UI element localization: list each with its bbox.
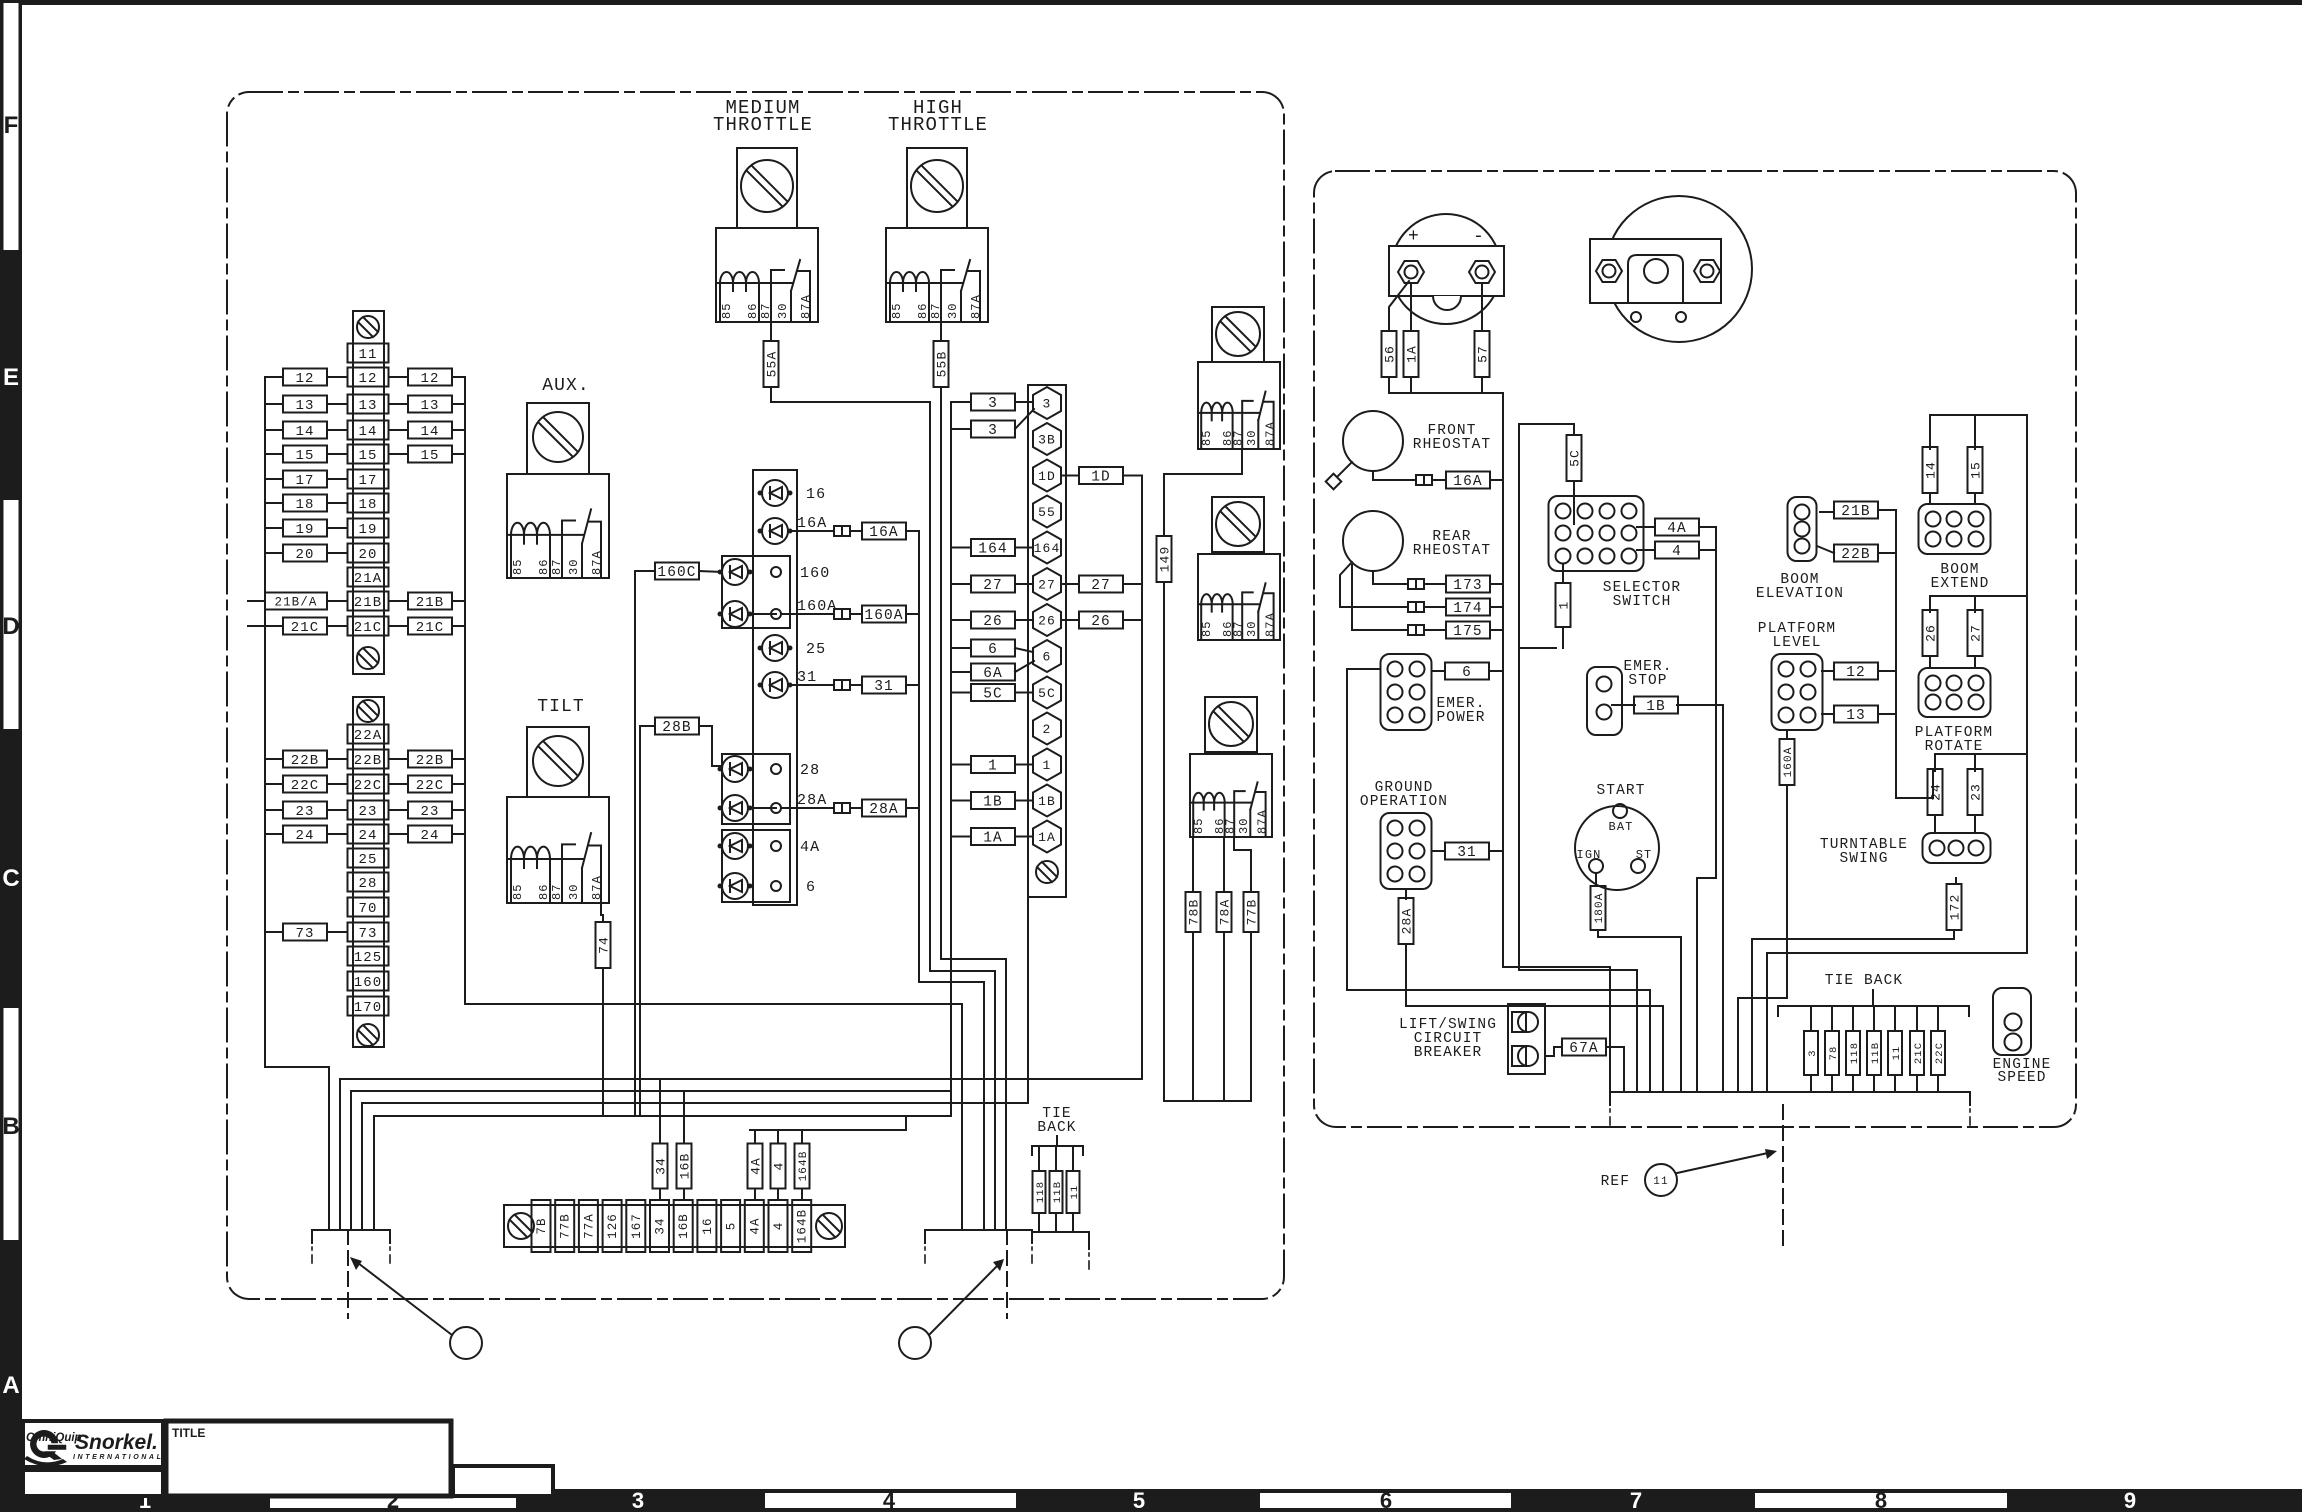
wire label 21B/A [265,593,327,610]
svg-text:87A: 87A [590,550,604,575]
wire label 23 left [283,802,327,821]
svg-text:78: 78 [1828,1046,1840,1061]
wire 1B feed [1612,705,1723,1092]
relay K7 body [1190,754,1272,837]
wire [265,809,283,811]
relay K4 screw [533,736,583,786]
wire [265,502,283,504]
TB1 terminal 21A [348,568,389,588]
svg-text:TITLE: TITLE [172,1426,205,1440]
relay K5 tab [1212,307,1264,362]
svg-text:15: 15 [1969,461,1984,479]
svg-text:SPEED: SPEED [1997,1070,2046,1086]
wire 175 [1352,565,1503,630]
svg-text:15: 15 [295,448,314,464]
wire 27 stub [1015,583,1033,585]
cable entry 1 comb [312,1230,390,1263]
relay K3 AUX body [507,474,609,578]
inline fuse 173 [1408,579,1424,589]
svg-text:26: 26 [1091,614,1111,630]
wire [327,403,347,405]
relay K7 tab [1205,697,1257,752]
wire tieback 22C bottom [1937,1075,1939,1092]
svg-text:21C: 21C [291,620,320,636]
svg-text:85: 85 [890,302,904,319]
wire 173 [1373,571,1503,584]
wire [389,453,408,455]
svg-text:+: + [1408,227,1420,247]
wire label 4 selector [1655,542,1699,561]
svg-text:160: 160 [354,975,383,991]
wire ground 28A top [1405,889,1407,899]
svg-text:14: 14 [295,424,314,440]
wire 5C to bus B [951,692,971,694]
fuse 28A [1399,898,1415,944]
svg-text:21A: 21A [354,571,383,587]
wire [327,783,347,785]
svg-text:14: 14 [420,424,439,440]
wire tieback 3 top [1810,1006,1812,1031]
svg-text:28A: 28A [869,802,898,818]
wire 164 to bus B [951,547,971,549]
TB3 terminal 77A [579,1200,598,1252]
ref leader [1677,1153,1768,1173]
wire tieback 118 bottom [1038,1213,1040,1232]
TB3 terminal 16B [674,1200,693,1252]
fuse 15 [1968,447,1984,493]
TB3 terminal 34 [650,1200,669,1252]
TB1 terminal 20 [348,544,389,564]
svg-text:20: 20 [358,547,377,563]
TB1 terminal 15 [348,445,389,465]
wire 67A feed [1545,1047,1624,1092]
fuse 77B [1244,892,1260,932]
svg-text:24: 24 [420,828,439,844]
TB1 terminal 14 [348,421,389,441]
relay K6 screw [1216,502,1260,546]
svg-text:16: 16 [701,1217,715,1234]
connector pin 2 [1033,713,1061,745]
svg-text:31: 31 [1457,845,1477,861]
TB2 terminal 28 [348,873,389,893]
fuse tieback right 21C [1910,1031,1925,1075]
wire label 1B conn [971,792,1015,811]
wire [265,527,283,529]
wire [389,809,408,811]
fuse 55B [934,341,950,387]
TB2 screw top [357,700,379,722]
svg-text:21C: 21C [1913,1042,1925,1064]
battery bus [1389,377,1503,393]
svg-text:-: - [1473,227,1485,247]
wire label 22B left [283,751,327,770]
svg-text:77B: 77B [1245,899,1260,926]
selector loop feed to harness [1519,648,1637,1092]
wire tieback 11 top [1072,1146,1074,1171]
relay K3 AUX tab [527,403,589,474]
svg-text:77A: 77A [582,1213,596,1239]
wire [327,600,347,602]
svg-text:13: 13 [358,398,377,414]
relay K6 tab [1212,497,1264,552]
fuse tieback 118 [1033,1171,1047,1213]
svg-text:E: E [3,364,19,391]
svg-text:85: 85 [511,883,525,900]
svg-text:3: 3 [988,423,998,439]
wire [1061,619,1079,621]
svg-text:70: 70 [358,901,377,917]
relay K5 screw [1216,312,1260,356]
svg-text:24: 24 [295,828,314,844]
svg-text:RHEOSTAT: RHEOSTAT [1413,543,1491,559]
wire 160A top [1786,730,1788,739]
svg-text:5C: 5C [1568,449,1583,467]
wire [452,783,465,785]
relay K1 MEDIUM THROTTLE body [716,228,818,322]
svg-text:23: 23 [358,804,377,820]
starter solenoid [1606,196,1752,342]
wire 27 to bus B [951,583,971,585]
TB3 terminal 4A [745,1200,764,1252]
wire [327,453,347,455]
wire tieback 11B bottom [1055,1213,1057,1232]
wire [327,833,347,835]
front rheostat [1343,411,1403,471]
svg-text:86: 86 [746,302,760,319]
svg-text:11: 11 [358,347,377,363]
battery feed to harness [1503,393,1610,1092]
wire label 23 right [408,802,452,821]
wire boom elev bus [1896,510,1933,798]
svg-text:6: 6 [1043,650,1052,665]
relay K4 TILT tab [527,727,589,797]
wire [327,758,347,760]
svg-text:22B: 22B [354,753,383,769]
wire label 16A [862,523,906,542]
wire tieback 11 top [1894,1006,1896,1031]
wire label 6 conn [971,640,1015,659]
stubs 14/15 [1930,493,1975,504]
svg-text:30: 30 [1245,620,1259,637]
svg-text:31: 31 [797,669,817,686]
wire label 21B right [408,593,452,612]
svg-text:1A: 1A [983,831,1003,847]
battery notch [1433,296,1461,310]
wire label 160C [655,563,699,582]
connector pin 1D [1033,460,1061,492]
wire 6A to bus B [951,671,971,673]
svg-text:17: 17 [295,473,314,489]
control box enclosure dashed [227,92,1284,1299]
svg-text:22C: 22C [291,778,320,794]
relay K2 HIGH THROTTLE body [886,228,988,322]
fuse tieback right 118 [1846,1031,1861,1075]
wire [327,625,347,627]
connector TURNTABLE SWING [1923,833,1991,863]
svg-text:57: 57 [1476,345,1491,363]
stub 13 [1822,713,1896,715]
wire label 13 left [283,396,327,415]
svg-text:8: 8 [1875,1488,1887,1512]
wire 31 ground [1432,850,1503,852]
wire label 31 [862,677,906,696]
svg-text:21B/A: 21B/A [274,596,317,610]
svg-text:2: 2 [1043,722,1052,737]
wire tieback 11 bottom [1072,1213,1074,1232]
fuse 5C [1567,435,1583,481]
svg-text:22A: 22A [354,728,383,744]
svg-text:LEVEL: LEVEL [1772,635,1821,651]
wire [265,376,283,378]
svg-text:6: 6 [1462,665,1472,681]
TB2 screw bottom [357,1024,379,1046]
wire 1B to bus B [951,800,971,802]
fuse riser 34 [653,1144,669,1189]
wire [389,783,408,785]
wire [389,429,408,431]
wire 28B to diode [699,726,722,766]
fuse riser 4 [771,1144,787,1189]
boom elev stubs [1817,510,1896,553]
svg-text:19: 19 [295,522,314,538]
relay K3 screw [533,412,583,462]
wire label 15 right [408,446,452,465]
wire 1 to bus B [951,764,971,766]
wire label 22B right [408,751,452,770]
wire label 21B boom [1834,502,1878,521]
svg-text:F: F [4,112,19,139]
svg-text:1: 1 [1557,601,1572,610]
tie back dash marks [1088,1253,1090,1269]
wire label 1A conn [971,828,1015,847]
TB3 terminal 167 [626,1200,645,1252]
inline fuse 175 [1408,625,1424,635]
TB3 terminal 5 [721,1200,740,1252]
svg-text:24: 24 [1929,783,1944,801]
svg-text:28A: 28A [1400,908,1415,935]
svg-text:3B: 3B [1038,433,1056,448]
wire 180A feed [1598,930,1681,1092]
svg-text:3: 3 [1043,397,1052,412]
wire 160C down [635,571,655,1116]
svg-text:30: 30 [1237,817,1251,834]
inline fuse 28A [834,803,850,813]
svg-text:16: 16 [806,486,826,503]
svg-text:21C: 21C [354,620,383,636]
svg-text:SWITCH: SWITCH [1613,594,1672,610]
wire 34 low [659,1189,661,1200]
svg-text:23: 23 [295,804,314,820]
svg-text:22C: 22C [354,778,383,794]
svg-text:12: 12 [295,371,314,387]
wire 26 stub [1015,619,1033,621]
wire label 6 emer [1445,663,1489,682]
svg-text:13: 13 [420,398,439,414]
svg-text:30: 30 [946,302,960,319]
terminal strip TB2 outline [353,697,384,1047]
balloon 1 [450,1327,482,1359]
wire label 27 right [1079,576,1123,595]
svg-text:118: 118 [1849,1042,1861,1064]
TB2 terminal 25 [348,849,389,869]
svg-text:87: 87 [929,302,943,319]
svg-text:74: 74 [597,936,612,954]
connector EMER POWER [1381,654,1432,730]
svg-text:11B: 11B [1870,1042,1882,1064]
svg-text:34: 34 [654,1217,668,1234]
wire tieback 22C top [1937,1006,1939,1031]
wire label 21C left [283,618,327,637]
svg-text:27: 27 [1091,578,1111,594]
svg-text:STOP: STOP [1628,673,1667,689]
TB3 terminal 164B [792,1200,811,1252]
connector SELECTOR SWITCH [1549,496,1644,571]
connector pin 55 [1033,496,1061,528]
connector pin 3B [1033,423,1061,455]
wire [389,833,408,835]
wire 160A to bus A [906,613,919,615]
page border top line [0,0,2302,5]
wire [452,758,465,760]
wire [265,758,283,760]
fuse 1A [1404,331,1420,377]
TB1 terminal 11 [348,344,389,364]
right bus feed [1767,415,2027,1092]
fuse 149 [1157,536,1173,582]
svg-text:164B: 164B [796,1209,810,1243]
svg-text:3: 3 [632,1488,644,1512]
TB1 terminal 21B [348,592,389,612]
wire 3b to bus B [951,428,971,430]
svg-text:1D: 1D [1091,470,1111,486]
wire rheostat 16A [1373,471,1503,480]
engine speed connector [1993,988,2031,1055]
svg-text:85: 85 [720,302,734,319]
svg-text:18: 18 [358,497,377,513]
svg-text:THROTTLE: THROTTLE [713,114,813,136]
svg-text:ROTATE: ROTATE [1925,739,1984,755]
diode D25 [759,635,792,661]
fuse tieback right 11B [1867,1031,1882,1075]
wire d160a [748,613,862,615]
wire label 13 right [408,396,452,415]
wire tieback 21C top [1916,1006,1918,1031]
wire label 164 [971,539,1015,558]
wire [1123,619,1142,621]
wire tieback 11 bottom [1894,1075,1896,1092]
svg-text:21B: 21B [354,595,383,611]
svg-text:21B: 21B [1841,504,1870,520]
relay K6 body [1198,554,1280,640]
wire 31 to bus A [906,684,919,686]
wire [389,600,408,602]
svg-text:180A: 180A [1594,893,1606,924]
wire d31 [790,684,862,686]
svg-text:55B: 55B [935,351,950,378]
relay K1 MEDIUM THROTTLE tab [737,148,797,228]
wire 3a to pin [1015,401,1033,403]
svg-text:A: A [2,1372,19,1399]
wire [1123,583,1142,585]
svg-text:1A: 1A [1038,830,1056,845]
svg-text:4A: 4A [749,1157,764,1175]
wire tieback 3 bottom [1810,1075,1812,1092]
fuse riser 164B [795,1144,811,1189]
stubs 26/27 [1930,656,1975,668]
svg-text:TIE BACK: TIE BACK [1825,973,1903,989]
wire [265,931,283,933]
TB2 terminal 70 [348,898,389,918]
wire K7-85 to 78B [1192,837,1194,892]
svg-text:30: 30 [776,302,790,319]
svg-text:28: 28 [358,876,377,892]
wire ign [1595,873,1597,886]
svg-text:73: 73 [358,926,377,942]
wire label 19 left [283,520,327,539]
svg-text:85: 85 [1200,620,1214,637]
svg-text:4: 4 [772,1162,787,1171]
wire [265,783,283,785]
wire label 3 b [971,421,1015,440]
wire K7-30 to 77B [1234,837,1251,892]
wire [265,552,283,554]
svg-text:87A: 87A [590,875,604,900]
wire K5-87 to fuse 149 [1164,449,1242,536]
svg-text:OmniQuip: OmniQuip [26,1432,82,1444]
svg-text:77B: 77B [559,1213,573,1239]
wire label 13 platform [1834,706,1878,725]
svg-text:4A: 4A [748,1217,762,1234]
wire [452,625,465,627]
svg-text:15: 15 [358,448,377,464]
TB3 terminal 126 [603,1200,622,1252]
svg-text:POWER: POWER [1436,710,1485,726]
wire 21B/A stub [248,600,265,602]
wire 55A trunk to entry [771,387,995,1230]
fuse 180A [1591,886,1607,930]
svg-text:1D: 1D [1038,469,1056,484]
wire label 6A [971,664,1015,683]
wire [327,527,347,529]
TB3 terminal 77B [555,1200,574,1252]
hex nut [1596,260,1622,282]
wire 6 to bus B [951,647,971,649]
svg-text:85: 85 [1192,817,1206,834]
wire 16A to bus A [906,530,919,532]
svg-text:4: 4 [883,1488,896,1512]
svg-text:16A: 16A [1453,474,1482,490]
svg-text:ELEVATION: ELEVATION [1756,586,1844,602]
svg-text:REF: REF [1601,1174,1630,1190]
wire 3b to pin [1015,409,1034,429]
wire 160C to diode [699,571,722,572]
wire 28A to bus A [906,807,919,809]
wire d16a [790,530,834,532]
connector pin 26 [1033,604,1061,636]
TB1 screw top [357,316,379,338]
svg-text:1B: 1B [1038,794,1056,809]
wire [389,758,408,760]
wire label 14 left [283,422,327,441]
balloon 2 [899,1327,931,1359]
rear rheostat [1343,511,1403,571]
wire tieback 11B bottom [1873,1075,1875,1092]
svg-text:24: 24 [358,828,377,844]
rheostat 2 wiper [1340,562,1352,607]
terminal strip TB1 outline [353,311,384,674]
fuse 56 [1382,331,1398,377]
svg-text:11: 11 [1653,1176,1668,1188]
